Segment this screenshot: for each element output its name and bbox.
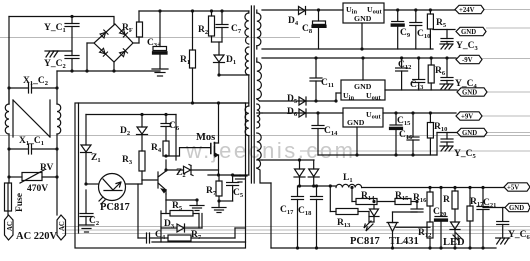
svg-text:470V: 470V [27,184,48,194]
svg-text:GND: GND [347,118,365,127]
svg-text:GND: GND [509,205,524,212]
svg-text:RV: RV [40,163,54,173]
svg-text:GND: GND [461,29,476,36]
svg-text:+9V: +9V [461,114,473,121]
svg-text:-9V: -9V [462,57,473,64]
svg-text:Y_C2: Y_C2 [44,59,66,70]
svg-text:Fuse: Fuse [15,193,25,212]
svg-text:+24V: +24V [459,7,475,14]
svg-text:X1_C2: X1_C2 [23,76,48,87]
svg-text:GND: GND [354,14,372,23]
svg-text:R: R [443,195,450,205]
svg-text:TL431: TL431 [389,236,419,247]
svg-text:+5V: +5V [507,185,519,192]
svg-text:PC817: PC817 [350,236,380,247]
svg-text:AC: AC [7,221,14,231]
svg-text:LED: LED [443,237,465,248]
svg-text:AC 220V: AC 220V [16,231,58,242]
svg-text:GND: GND [462,90,477,97]
svg-text:GND: GND [354,82,372,91]
svg-text:AC: AC [59,221,66,231]
svg-text:PC817: PC817 [100,202,130,213]
svg-text:Mos: Mos [196,132,215,143]
svg-text:Y_C1: Y_C1 [44,23,66,34]
svg-text:GND: GND [462,130,477,137]
svg-text:X1_C1: X1_C1 [19,136,44,147]
